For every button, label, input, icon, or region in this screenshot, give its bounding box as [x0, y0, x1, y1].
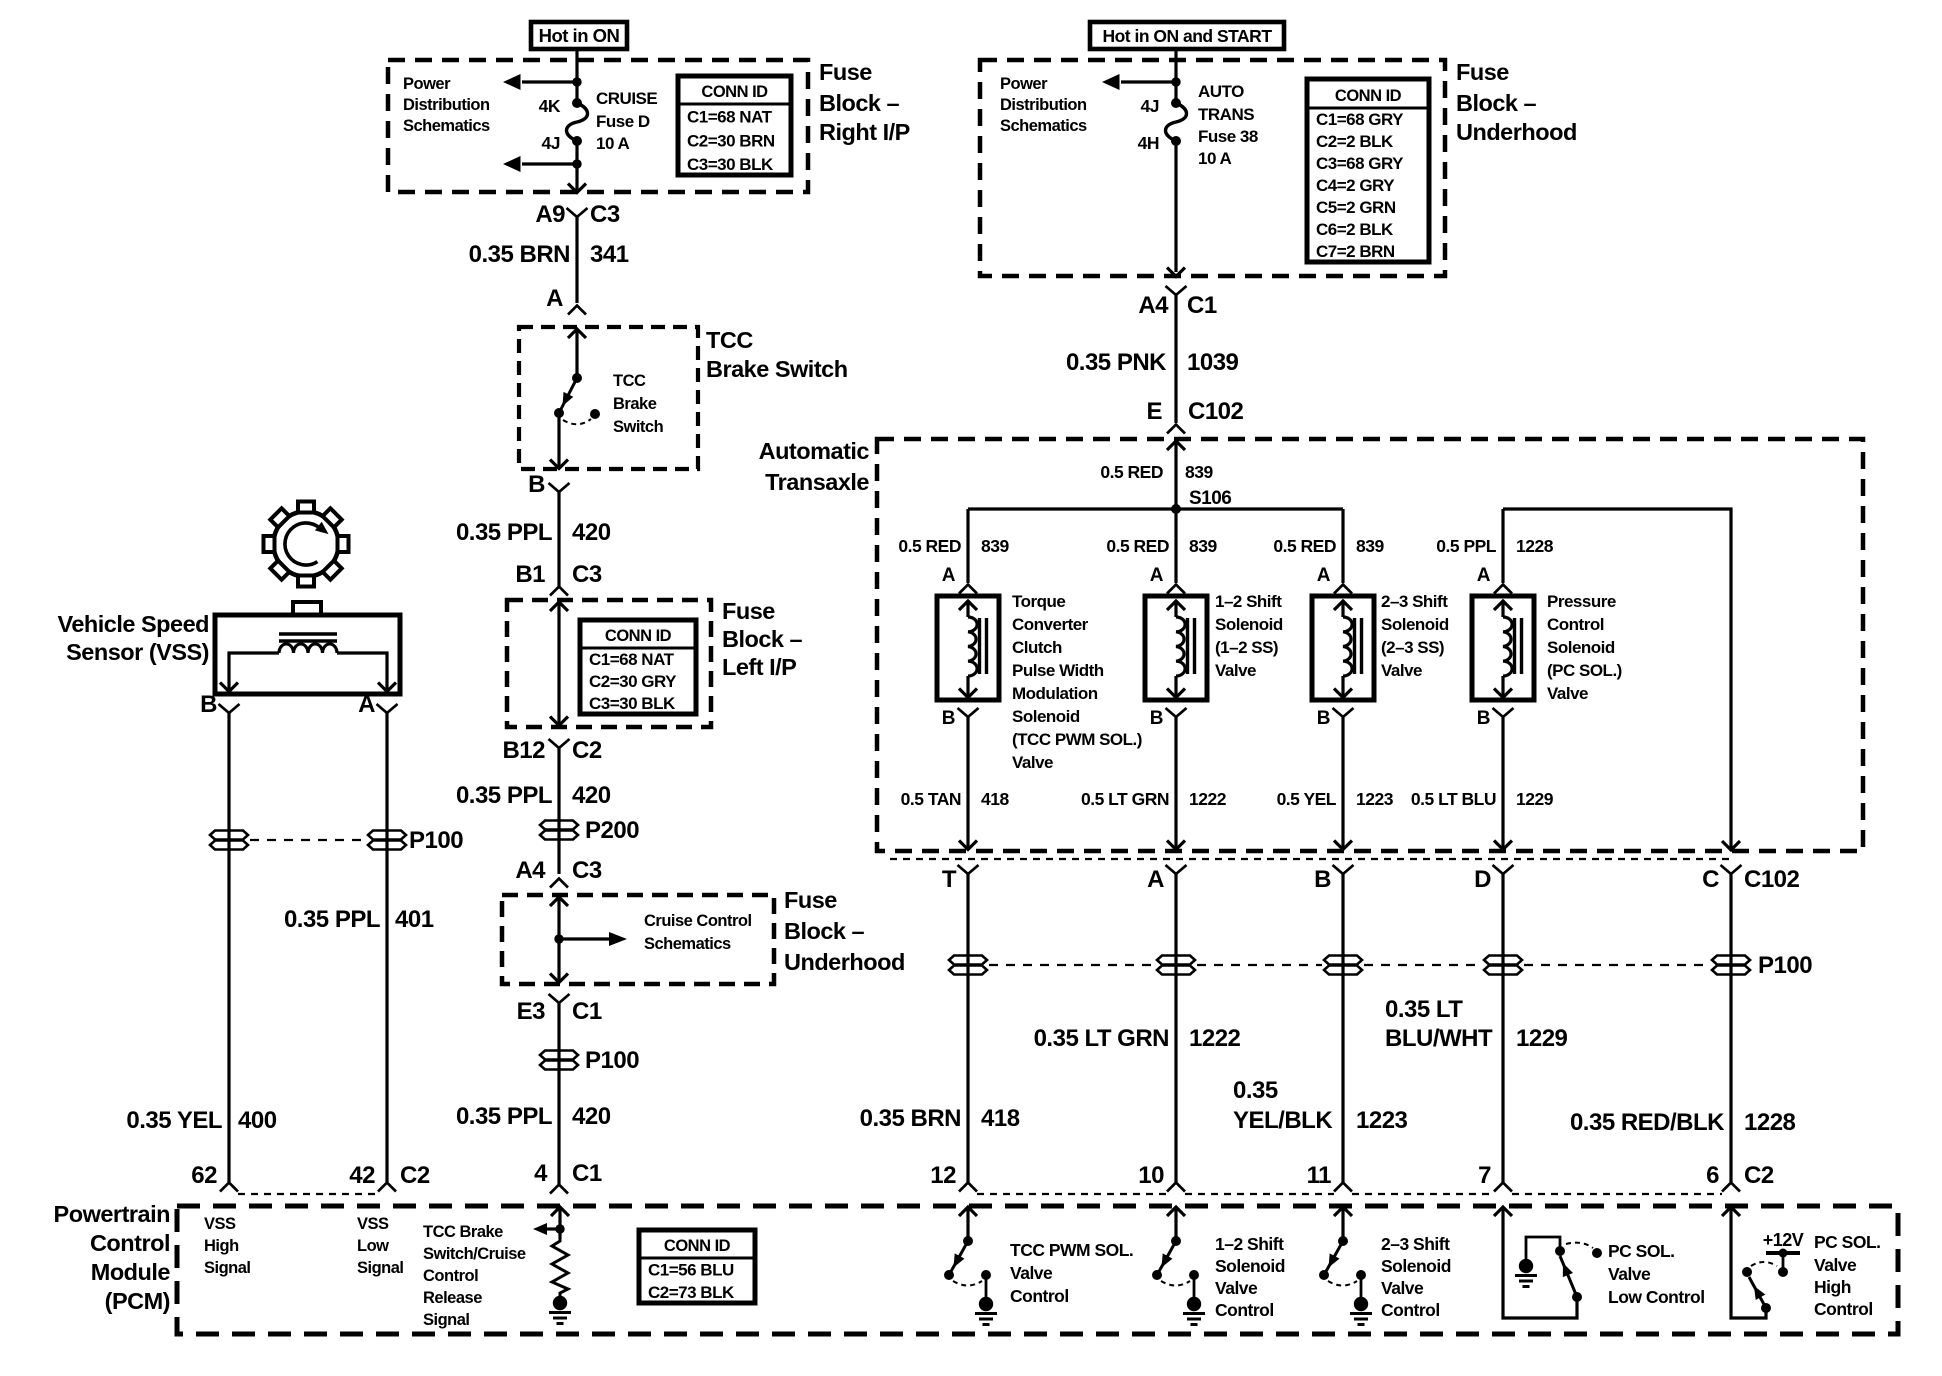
- fuse block - right I/P enclosure: [388, 60, 808, 192]
- arrow: wire exits fuse block right I/P: [568, 184, 586, 193]
- svg-text:Hot in ON: Hot in ON: [539, 25, 620, 46]
- svg-text:CONN ID: CONN ID: [1335, 87, 1402, 105]
- svg-text:Solenoid: Solenoid: [1381, 1256, 1451, 1276]
- wire: 0.35 RED/BLK 1228 (C102 C to PCM 6): [1570, 873, 1796, 1182]
- pcm driver: 2-3 shift solenoid valve control switch: [1319, 1207, 1451, 1325]
- wire: 0.5 LT BLU 1229: [1411, 716, 1554, 850]
- svg-text:A: A: [1477, 565, 1491, 586]
- svg-text:Valve: Valve: [1215, 1278, 1258, 1298]
- conn table: underhood CONN ID: [1307, 79, 1429, 262]
- conn table: PCM CONN ID: [639, 1230, 755, 1303]
- connector pin C of C102: [1702, 865, 1799, 893]
- svg-text:Transaxle: Transaxle: [765, 469, 869, 495]
- svg-text:0.5 RED: 0.5 RED: [898, 536, 961, 556]
- pcm driver: PC SOL valve low control switch: [1494, 1207, 1602, 1318]
- fuse block - underhood (cruise) enclosure: [502, 895, 774, 984]
- pcm driver: 1-2 shift solenoid valve control switch: [1152, 1207, 1285, 1325]
- svg-text:Vehicle Speed: Vehicle Speed: [57, 611, 209, 637]
- label: 0.35 PPL 420 (lower): [456, 1103, 611, 1130]
- svg-text:420: 420: [572, 1103, 611, 1130]
- connector pin 11 (PCM C2): [1307, 1162, 1352, 1192]
- connector pin D of C102: [1474, 865, 1513, 893]
- label: power distribution schematics (underhood): [1000, 75, 1087, 135]
- svg-text:C7=2 BRN: C7=2 BRN: [1316, 242, 1395, 261]
- svg-text:Solenoid: Solenoid: [1215, 615, 1283, 634]
- svg-text:Torque: Torque: [1012, 592, 1065, 611]
- label: fuse terminal 4J (underhood): [1141, 96, 1159, 116]
- svg-text:High: High: [204, 1237, 239, 1255]
- svg-text:4J: 4J: [542, 133, 560, 153]
- svg-text:Valve: Valve: [1010, 1263, 1053, 1283]
- fuse block - underhood enclosure (top): [980, 60, 1445, 276]
- svg-text:10 A: 10 A: [596, 134, 630, 153]
- svg-text:VSS: VSS: [204, 1215, 236, 1233]
- node: feed junction lower (right I/P): [572, 159, 581, 168]
- svg-text:839: 839: [1189, 536, 1217, 556]
- wire: 0.35 LT GRN 1222 (C102 A to PCM 10): [1034, 873, 1241, 1182]
- wire: into TCC brake switch: [568, 329, 586, 378]
- svg-text:Underhood: Underhood: [784, 949, 905, 975]
- svg-text:Solenoid: Solenoid: [1547, 638, 1615, 657]
- svg-text:A: A: [1147, 866, 1164, 893]
- connector E/C102: [1146, 398, 1243, 434]
- svg-text:Control: Control: [1010, 1286, 1069, 1306]
- wire: 0.35 YEL/BLK 1223 (C102 B to PCM 11): [1233, 873, 1408, 1182]
- svg-text:P100: P100: [409, 827, 463, 854]
- wire: branch arrow to power distribution (underhood): [1102, 74, 1176, 90]
- svg-text:A4: A4: [1138, 292, 1169, 319]
- inline connector P100 (middle): [540, 1047, 639, 1074]
- svg-text:A: A: [942, 565, 956, 586]
- svg-text:A: A: [1317, 565, 1331, 586]
- svg-text:B: B: [942, 708, 955, 729]
- connector pin A of C102: [1147, 865, 1186, 893]
- svg-text:7: 7: [1478, 1162, 1491, 1189]
- svg-text:Clutch: Clutch: [1012, 638, 1062, 657]
- conn table: left I/P CONN ID: [580, 620, 696, 714]
- svg-text:C4=2 GRY: C4=2 GRY: [1316, 176, 1395, 195]
- svg-text:Cruise Control: Cruise Control: [644, 912, 752, 930]
- svg-text:A: A: [1150, 565, 1164, 586]
- connector line C102: [890, 858, 1731, 860]
- connector pin T of C102: [942, 865, 979, 893]
- tcc brake switch enclosure: [519, 327, 698, 469]
- svg-text:418: 418: [981, 1105, 1020, 1132]
- ground: pin 4 pull-down ground: [549, 1296, 571, 1324]
- svg-text:Low: Low: [357, 1237, 389, 1255]
- svg-text:Valve: Valve: [1547, 684, 1588, 703]
- svg-text:Valve: Valve: [1381, 1278, 1424, 1298]
- label: Automatic Transaxle: [759, 438, 870, 495]
- svg-text:TCC: TCC: [613, 372, 646, 390]
- fuse: CRUISE Fuse D 10A element: [567, 98, 588, 146]
- wire: 0.5 RED 839 drop to 1-2 sol: [1106, 509, 1217, 583]
- svg-text:B: B: [1477, 708, 1490, 729]
- svg-text:420: 420: [572, 519, 611, 546]
- svg-text:401: 401: [395, 906, 434, 933]
- svg-text:0.5 LT GRN: 0.5 LT GRN: [1081, 789, 1169, 809]
- svg-text:Solenoid: Solenoid: [1381, 615, 1449, 634]
- wire: 0.5 YEL 1223: [1277, 716, 1394, 850]
- svg-text:(TCC PWM SOL.): (TCC PWM SOL.): [1012, 730, 1142, 749]
- power tag: Hot in ON: [531, 22, 627, 49]
- svg-text:4H: 4H: [1138, 133, 1159, 153]
- svg-text:0.35 LT GRN: 0.35 LT GRN: [1034, 1025, 1169, 1052]
- wire: VSS high 0.35 YEL 400: [126, 712, 276, 1182]
- svg-text:B: B: [1317, 708, 1330, 729]
- wire: 0.35 PPL 420 (to P200): [456, 747, 611, 874]
- svg-text:11: 11: [1307, 1162, 1332, 1189]
- connector pin B (VSS): [200, 691, 239, 718]
- connector pin 4 / C1 (PCM): [534, 1160, 602, 1194]
- svg-text:A: A: [358, 691, 375, 718]
- wire: 0.35 PPL 420 (upper): [456, 491, 611, 586]
- svg-text:1229: 1229: [1516, 789, 1554, 809]
- connector B1/C3: [515, 561, 602, 596]
- wire: TCC brake switch output: [550, 413, 568, 469]
- svg-text:A9: A9: [535, 201, 565, 228]
- svg-text:CONN ID: CONN ID: [664, 1237, 731, 1255]
- label: CRUISE Fuse D 10 A: [596, 89, 657, 153]
- wire: vss coil to pin A: [337, 653, 396, 692]
- svg-text:0.5 PPL: 0.5 PPL: [1436, 536, 1497, 556]
- svg-text:E3: E3: [517, 998, 546, 1025]
- svg-text:AUTO: AUTO: [1198, 82, 1244, 101]
- svg-text:10: 10: [1138, 1162, 1164, 1189]
- svg-text:Schematics: Schematics: [644, 935, 731, 953]
- label: 1-2 shift solenoid L2 name: [1215, 592, 1283, 680]
- svg-text:C3: C3: [572, 857, 602, 884]
- svg-text:0.35 BRN: 0.35 BRN: [469, 241, 570, 268]
- svg-text:C3: C3: [572, 561, 602, 588]
- svg-text:Release: Release: [423, 1289, 482, 1307]
- connector pin A of 1-2 shift solenoid L2: [1150, 565, 1185, 594]
- label: TCC Brake Switch (title): [706, 327, 848, 382]
- svg-text:TCC: TCC: [706, 327, 753, 353]
- connector pin B of C102: [1314, 865, 1353, 893]
- label: pressure control solenoid L4 name: [1547, 592, 1622, 703]
- svg-text:1228: 1228: [1516, 536, 1554, 556]
- svg-text:T: T: [942, 866, 957, 893]
- svg-text:Pulse Width: Pulse Width: [1012, 661, 1104, 680]
- svg-text:0.5 YEL: 0.5 YEL: [1277, 789, 1337, 809]
- svg-text:10 A: 10 A: [1198, 149, 1232, 168]
- svg-text:B12: B12: [502, 737, 545, 764]
- svg-text:VSS: VSS: [357, 1215, 389, 1233]
- wire: 0.5 LT GRN 1222: [1081, 716, 1227, 850]
- node: cruise control branch junction: [554, 934, 563, 943]
- svg-text:1229: 1229: [1516, 1025, 1568, 1052]
- svg-text:1223: 1223: [1356, 1107, 1408, 1134]
- wire: fuse D output down: [575, 141, 578, 192]
- conn table: right I/P CONN ID: [678, 76, 791, 175]
- svg-text:Sensor (VSS): Sensor (VSS): [66, 639, 209, 665]
- resistor: pin 4 pull-down: [552, 1239, 568, 1296]
- wire: 0.35 PNK 1039: [1066, 294, 1239, 423]
- svg-text:High: High: [1814, 1277, 1851, 1297]
- svg-text:A4: A4: [515, 857, 546, 884]
- svg-text:420: 420: [572, 782, 611, 809]
- solenoid coil: pressure control solenoid L4: [1472, 596, 1534, 700]
- svg-text:2–3 Shift: 2–3 Shift: [1381, 592, 1448, 611]
- connector pin 42 / C2 (PCM): [349, 1162, 430, 1192]
- connector A9/C3: [535, 201, 620, 228]
- svg-text:Signal: Signal: [423, 1311, 470, 1329]
- wire: 0.5 TAN 418: [901, 716, 1010, 850]
- vss body (Vehicle Speed Sensor): [215, 615, 400, 694]
- svg-text:Signal: Signal: [204, 1259, 251, 1277]
- svg-text:C: C: [1702, 866, 1719, 893]
- svg-text:Fuse D: Fuse D: [596, 112, 650, 131]
- svg-text:C102: C102: [1744, 866, 1800, 893]
- label: Fuse Block - Left I/P: [722, 598, 803, 680]
- svg-text:0.35 PPL: 0.35 PPL: [456, 1103, 552, 1130]
- solenoid coil: 1-2 shift solenoid L2: [1145, 596, 1207, 700]
- label: VSS Low Signal: [357, 1215, 404, 1277]
- svg-text:Valve: Valve: [1381, 661, 1422, 680]
- svg-text:0.35 PPL: 0.35 PPL: [456, 519, 552, 546]
- svg-text:Low Control: Low Control: [1608, 1287, 1705, 1307]
- svg-text:1223: 1223: [1356, 789, 1394, 809]
- pcm input: TCC brake switch sense: [533, 1207, 569, 1239]
- svg-text:Left I/P: Left I/P: [722, 654, 796, 680]
- svg-text:C1: C1: [1187, 292, 1217, 319]
- svg-text:Block –: Block –: [722, 626, 803, 652]
- svg-text:Hot in ON and START: Hot in ON and START: [1102, 26, 1272, 46]
- svg-text:Valve: Valve: [1012, 753, 1053, 772]
- svg-text:C6=2 BLK: C6=2 BLK: [1316, 220, 1394, 239]
- svg-text:Fuse 38: Fuse 38: [1198, 127, 1258, 146]
- wire: branch arrow to cruise control schematics: [559, 932, 627, 946]
- svg-text:P200: P200: [585, 817, 639, 844]
- svg-text:C1=68 GRY: C1=68 GRY: [1316, 110, 1404, 129]
- wire: VSS low 0.35 PPL 401: [284, 712, 434, 1182]
- label: Fuse Block - Underhood (cruise): [784, 887, 905, 975]
- connector pin A of torque converter clutch PWM solenoid L1: [942, 565, 977, 594]
- svg-text:Brake Switch: Brake Switch: [706, 356, 848, 382]
- wire: 0.5 RED 839 drop to 2-3 sol: [1273, 509, 1384, 583]
- svg-text:Block –: Block –: [784, 918, 865, 944]
- svg-text:0.5 LT BLU: 0.5 LT BLU: [1411, 789, 1496, 809]
- connector pin 10 (PCM C2): [1138, 1162, 1185, 1192]
- label: Fuse Block - Right I/P: [819, 59, 910, 145]
- wire: branch arrow to power distribution (lower): [503, 156, 577, 172]
- svg-text:C2=30 GRY: C2=30 GRY: [589, 672, 677, 691]
- svg-text:C3=68 GRY: C3=68 GRY: [1316, 154, 1404, 173]
- svg-text:TRANS: TRANS: [1198, 105, 1254, 124]
- label: Powertrain Control Module (PCM): [54, 1201, 171, 1314]
- fuse: AUTO TRANS Fuse 38 10A element: [1166, 98, 1187, 146]
- svg-text:CONN ID: CONN ID: [701, 83, 768, 101]
- connector pin 62 (PCM C2): [191, 1162, 238, 1192]
- svg-text:1222: 1222: [1189, 789, 1227, 809]
- svg-text:C2=73 BLK: C2=73 BLK: [648, 1283, 735, 1302]
- vss pickup core: [279, 634, 337, 641]
- svg-text:Valve: Valve: [1215, 661, 1256, 680]
- svg-text:0.5 RED: 0.5 RED: [1100, 462, 1163, 482]
- vss pickup coil: [279, 644, 337, 653]
- pcm driver: TCC PWM SOL valve control switch: [944, 1207, 1133, 1325]
- svg-text:Control: Control: [90, 1230, 170, 1256]
- svg-text:1228: 1228: [1744, 1109, 1796, 1136]
- svg-text:Underhood: Underhood: [1456, 119, 1577, 145]
- label: Vehicle Speed Sensor (VSS): [57, 611, 209, 665]
- svg-text:4K: 4K: [539, 96, 561, 116]
- label: torque converter clutch PWM solenoid L1 name: [1012, 592, 1142, 772]
- svg-text:C102: C102: [1188, 398, 1244, 425]
- label: splice S106: [1189, 488, 1231, 509]
- svg-text:Distribution: Distribution: [403, 96, 490, 114]
- svg-text:0.35 PPL: 0.35 PPL: [284, 906, 380, 933]
- svg-text:4: 4: [534, 1160, 548, 1187]
- automatic transaxle enclosure: [877, 439, 1863, 851]
- svg-text:(2–3 SS): (2–3 SS): [1381, 638, 1444, 657]
- svg-text:(PC SOL.): (PC SOL.): [1547, 661, 1622, 680]
- svg-text:1–2 Shift: 1–2 Shift: [1215, 592, 1282, 611]
- svg-text:C3=30 BLK: C3=30 BLK: [687, 155, 774, 174]
- svg-text:Switch/Cruise: Switch/Cruise: [423, 1245, 526, 1263]
- svg-text:Converter: Converter: [1012, 615, 1089, 634]
- svg-text:C3=30 BLK: C3=30 BLK: [589, 694, 676, 713]
- svg-text:B: B: [1150, 708, 1163, 729]
- svg-text:C1=56 BLU: C1=56 BLU: [648, 1261, 734, 1280]
- svg-text:62: 62: [191, 1162, 217, 1189]
- svg-text:E: E: [1146, 398, 1162, 425]
- svg-text:6: 6: [1706, 1162, 1719, 1189]
- label: fuse terminal 4J (right I/P): [542, 133, 560, 153]
- svg-text:839: 839: [981, 536, 1009, 556]
- wire: 0.35 LT BLU/WHT 1229 (C102 D to PCM 7): [1385, 873, 1568, 1182]
- connector pin B of pressure control solenoid L4: [1477, 708, 1514, 729]
- svg-text:Solenoid: Solenoid: [1215, 1256, 1285, 1276]
- svg-text:B: B: [1314, 866, 1331, 893]
- svg-text:Control: Control: [1381, 1300, 1440, 1320]
- svg-text:Module: Module: [91, 1259, 171, 1285]
- label: PC SOL Valve High Control: [1814, 1232, 1881, 1319]
- label: 2-3 shift solenoid L3 name: [1381, 592, 1449, 680]
- connector pin 12 (PCM C2): [930, 1162, 977, 1192]
- wire: vss coil to pin B: [220, 653, 279, 692]
- svg-text:0.35 LT: 0.35 LT: [1385, 996, 1463, 1023]
- wire: PC SOL supply bus: [1503, 509, 1740, 850]
- svg-text:C5=2 GRN: C5=2 GRN: [1316, 198, 1396, 217]
- svg-text:0.35 BRN: 0.35 BRN: [860, 1105, 961, 1132]
- connector pin A of 2-3 shift solenoid L3: [1317, 565, 1352, 594]
- fuse block - left I/P enclosure: [507, 600, 711, 727]
- arrow: wire exits fuse block underhood: [1167, 268, 1185, 277]
- svg-text:1–2 Shift: 1–2 Shift: [1215, 1234, 1284, 1254]
- svg-text:CONN ID: CONN ID: [605, 627, 672, 645]
- wire: 0.35 BRN 418 (C102 T to PCM 12): [860, 873, 1020, 1182]
- svg-text:Modulation: Modulation: [1012, 684, 1098, 703]
- svg-text:341: 341: [590, 241, 629, 268]
- svg-text:Brake: Brake: [613, 395, 657, 413]
- svg-text:Pressure: Pressure: [1547, 592, 1616, 611]
- svg-text:Valve: Valve: [1608, 1264, 1651, 1284]
- svg-text:YEL/BLK: YEL/BLK: [1233, 1107, 1333, 1134]
- svg-text:C2: C2: [400, 1162, 430, 1189]
- svg-text:BLU/WHT: BLU/WHT: [1385, 1025, 1493, 1052]
- svg-text:D: D: [1474, 866, 1491, 893]
- solenoid coil: 2-3 shift solenoid L3: [1312, 596, 1374, 700]
- svg-text:418: 418: [981, 789, 1009, 809]
- svg-text:C1=68 NAT: C1=68 NAT: [687, 108, 773, 127]
- connector A4/C3: [515, 857, 602, 888]
- connector B (TCC brake switch): [528, 471, 569, 498]
- connector line C2 left group: [238, 1193, 378, 1195]
- svg-text:PC SOL.: PC SOL.: [1608, 1241, 1675, 1261]
- svg-text:+12V: +12V: [1763, 1230, 1804, 1250]
- label: fuse terminal 4H: [1138, 133, 1159, 153]
- connector pin 6 / C2 (PCM): [1706, 1162, 1774, 1192]
- svg-text:0.35: 0.35: [1233, 1077, 1278, 1104]
- label: Fuse Block - Underhood (top): [1456, 59, 1577, 145]
- svg-text:Power: Power: [403, 75, 451, 93]
- label: PC SOL Valve Low Control: [1608, 1241, 1705, 1307]
- svg-text:Block –: Block –: [1456, 90, 1537, 116]
- svg-text:Powertrain: Powertrain: [54, 1201, 170, 1227]
- svg-text:Switch: Switch: [613, 418, 664, 436]
- svg-text:Control: Control: [1215, 1300, 1274, 1320]
- svg-text:(1–2 SS): (1–2 SS): [1215, 638, 1278, 657]
- svg-text:0.35 PPL: 0.35 PPL: [456, 782, 552, 809]
- svg-text:0.35 YEL: 0.35 YEL: [126, 1107, 222, 1134]
- connector pin A of pressure control solenoid L4: [1477, 565, 1512, 594]
- svg-text:Schematics: Schematics: [403, 117, 490, 135]
- svg-text:0.5 TAN: 0.5 TAN: [901, 789, 961, 809]
- wire: PPL to P100 (middle): [557, 1002, 560, 1184]
- solenoid coil: torque converter clutch PWM solenoid L1: [937, 596, 999, 700]
- svg-text:CRUISE: CRUISE: [596, 89, 657, 108]
- svg-text:0.5 RED: 0.5 RED: [1106, 536, 1169, 556]
- svg-text:PC SOL.: PC SOL.: [1814, 1232, 1881, 1252]
- wire: 0.35 BRN 341: [469, 216, 629, 303]
- svg-text:TCC Brake: TCC Brake: [423, 1223, 503, 1241]
- svg-text:Block –: Block –: [819, 90, 900, 116]
- connector A (TCC brake switch): [546, 285, 586, 315]
- svg-text:S106: S106: [1189, 488, 1231, 509]
- connector line C2 right group: [977, 1193, 1722, 1195]
- wire: 0.5 PPL 1228 drop to PC sol: [1436, 509, 1553, 583]
- wire: 0.5 RED 839 into transaxle: [1100, 441, 1213, 509]
- svg-text:1039: 1039: [1187, 349, 1239, 376]
- svg-text:C2=2 BLK: C2=2 BLK: [1316, 132, 1394, 151]
- switch: TCC brake switch: [554, 373, 600, 424]
- svg-text:A: A: [546, 285, 563, 312]
- svg-text:Fuse: Fuse: [784, 887, 837, 913]
- label: VSS High Signal: [204, 1215, 251, 1277]
- label: AUTO TRANS Fuse 38 10 A: [1198, 82, 1258, 168]
- svg-text:400: 400: [238, 1107, 277, 1134]
- inline connector P200: [540, 817, 639, 844]
- svg-text:Automatic: Automatic: [759, 438, 870, 464]
- connector pin B of torque converter clutch PWM solenoid L1: [942, 708, 979, 729]
- connector A4/C1: [1138, 286, 1217, 319]
- svg-text:Fuse: Fuse: [722, 598, 775, 624]
- wire: 0.5 RED 839 drop to TCC PWM sol: [898, 509, 1009, 583]
- svg-text:Fuse: Fuse: [819, 59, 872, 85]
- svg-text:1222: 1222: [1189, 1025, 1241, 1052]
- powertrain control module enclosure: [177, 1206, 1898, 1334]
- svg-text:B: B: [528, 471, 545, 498]
- svg-text:P100: P100: [585, 1047, 639, 1074]
- svg-text:42: 42: [349, 1162, 375, 1189]
- vss reluctor gear: [264, 502, 349, 587]
- node: feed junction upper (right I/P): [572, 77, 581, 86]
- svg-text:839: 839: [1185, 462, 1213, 482]
- svg-text:C2: C2: [1744, 1162, 1774, 1189]
- wire: Hot in ON feed down to fuse D: [575, 49, 578, 103]
